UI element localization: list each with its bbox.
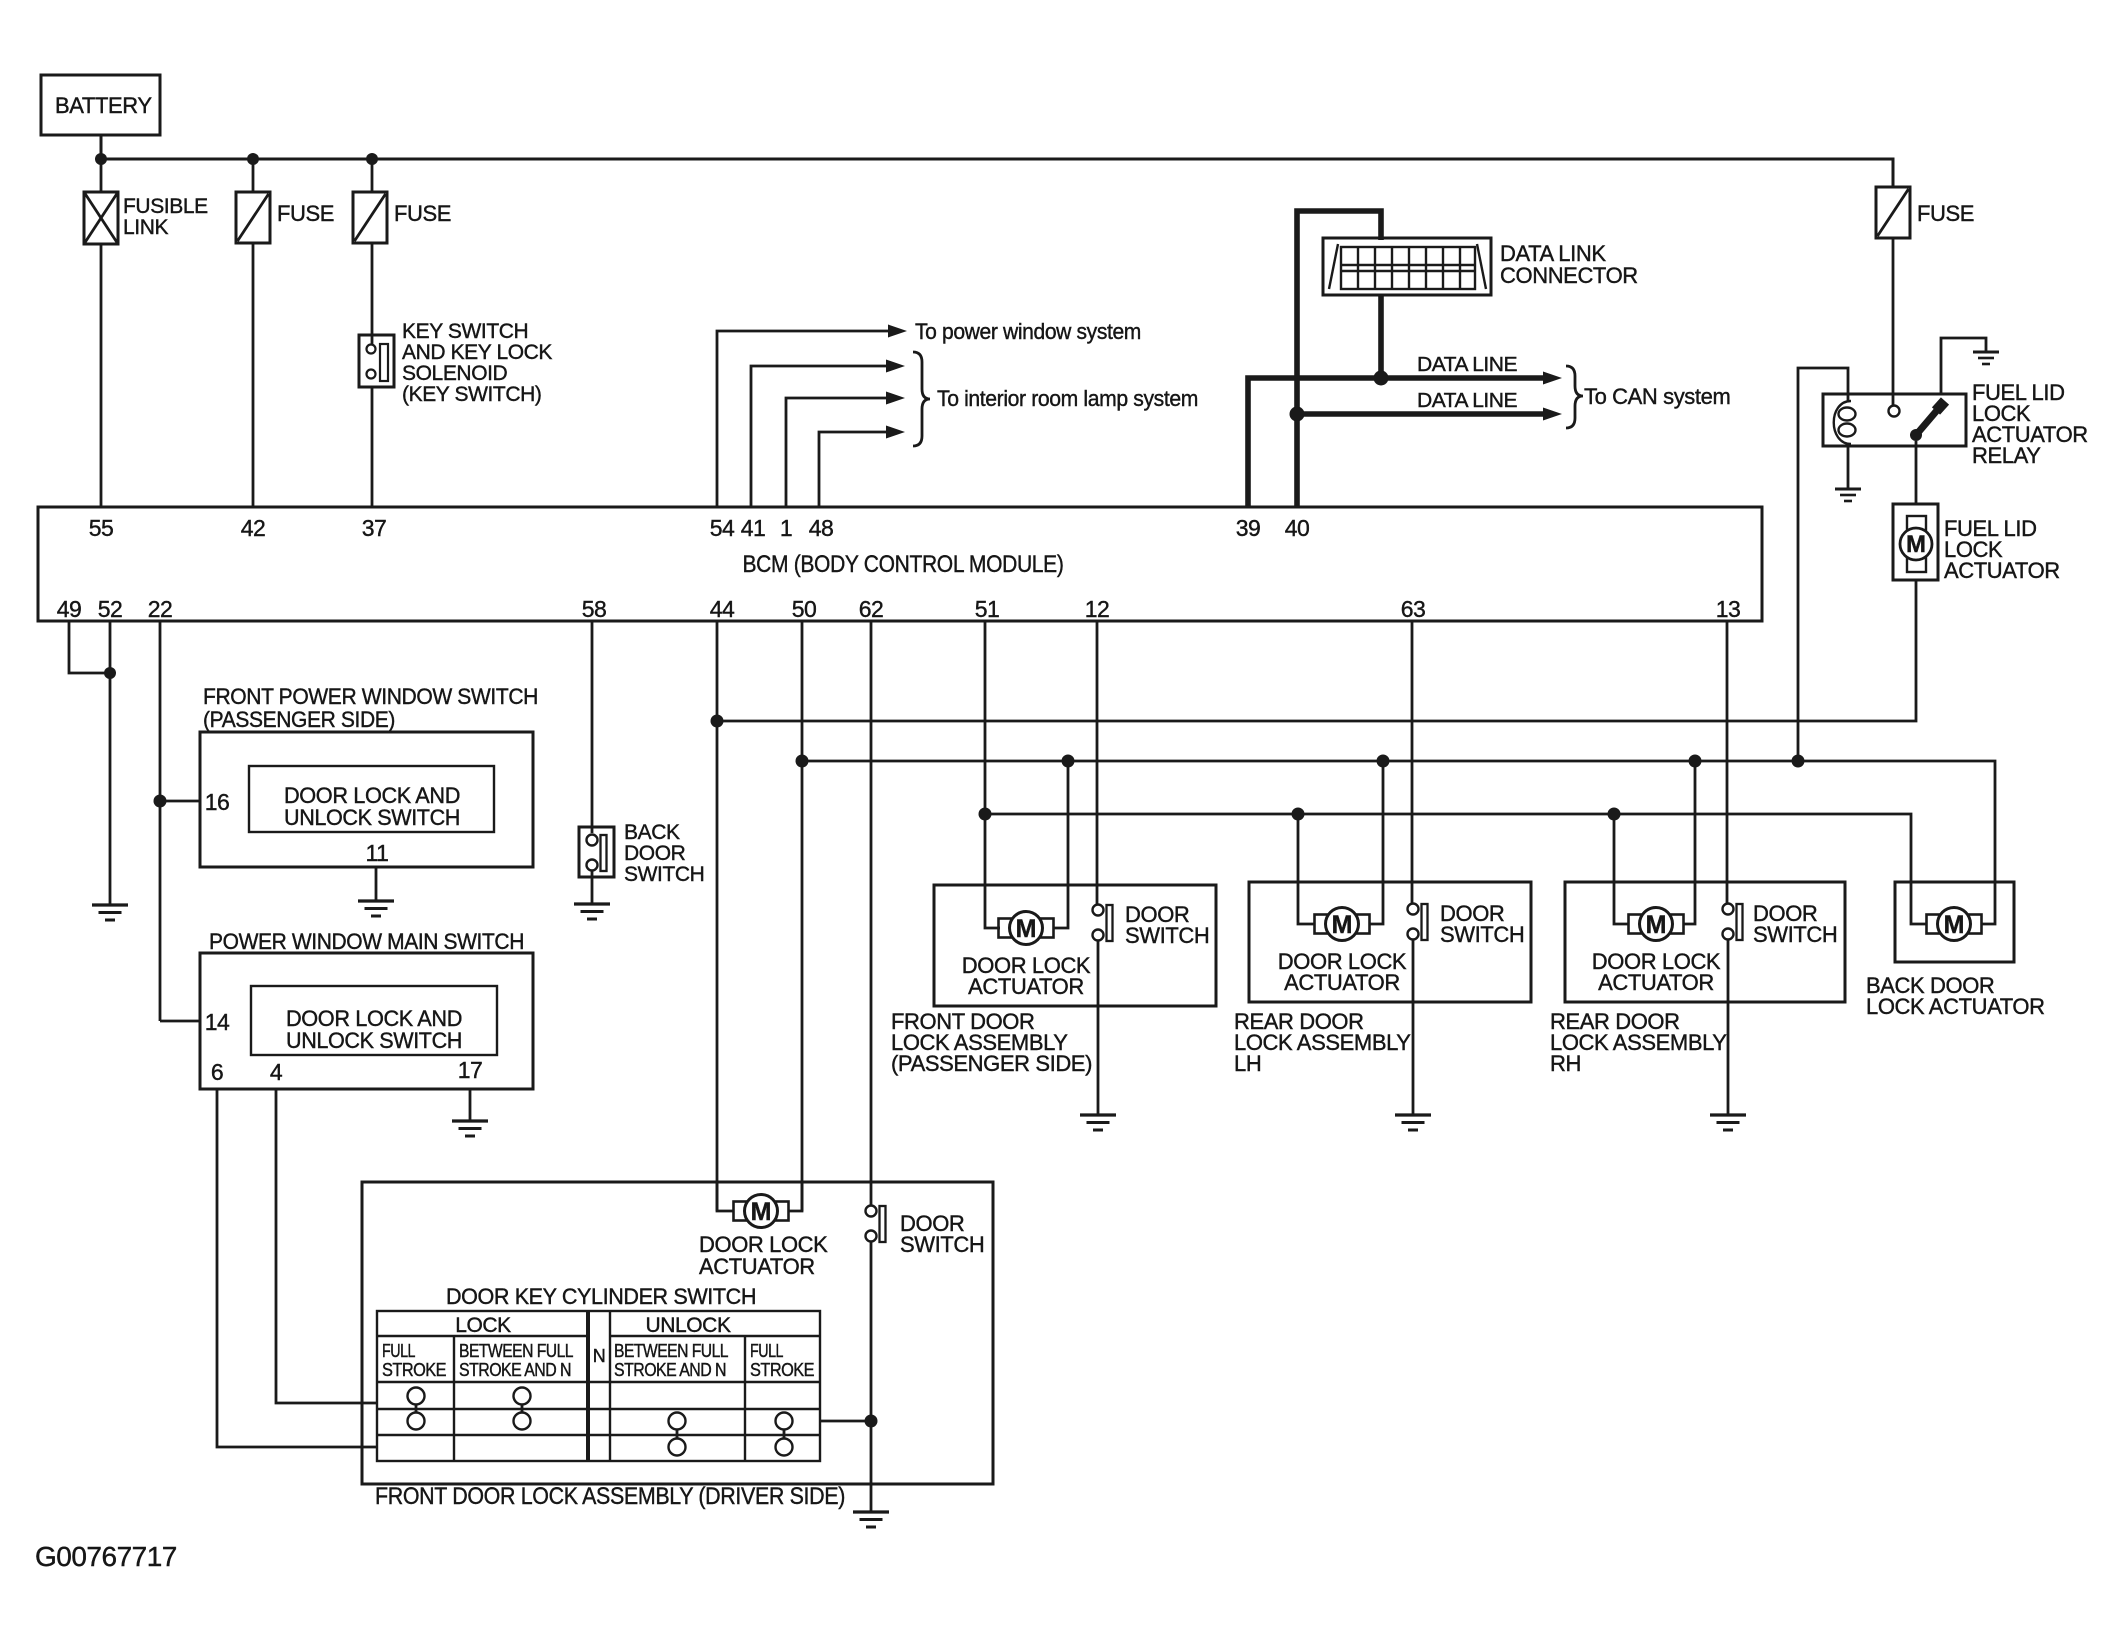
data link connector DLC: [1323, 238, 1638, 295]
svg-text:FUSIBLE: FUSIBLE: [123, 195, 208, 218]
label back door lock actuator: [1866, 973, 2045, 1019]
wire BCM pin 22 riser: [159, 621, 162, 1021]
svg-text:54: 54: [710, 515, 735, 541]
svg-text:55: 55: [89, 515, 114, 541]
wire RH motor left to bus C: [1614, 814, 1629, 924]
wire bus to fuse F1: [252, 159, 255, 192]
wire relay coil feed from unlock bus: [1798, 368, 1848, 761]
wire pin 22 to main switch pin 14: [160, 1020, 200, 1023]
motor M3 door lock actuator RH: [1592, 908, 1721, 996]
label rear door lock assembly LH: [1234, 1009, 1411, 1076]
svg-text:FULL: FULL: [382, 1341, 415, 1361]
fuse F3: [1876, 187, 1974, 238]
svg-text:FUSE: FUSE: [1917, 201, 1974, 226]
ground G2: [358, 901, 394, 916]
svg-text:M: M: [1906, 531, 1926, 558]
node LH motor bus C junction: [1292, 808, 1305, 821]
wire back door switch to ground: [591, 870, 594, 904]
wire BCM pin 51 riser to passenger motor: [985, 621, 1000, 928]
svg-text:(KEY SWITCH): (KEY SWITCH): [402, 383, 541, 406]
label front door lock assembly passenger: [891, 1009, 1092, 1076]
svg-text:SWITCH: SWITCH: [1125, 923, 1209, 948]
contact pair lock between: [514, 1388, 531, 1430]
wire RH door switch to ground: [1727, 939, 1730, 1115]
wire RH motor right to unlock bus: [1683, 761, 1695, 924]
wire pin 6 to key cylinder unlock row: [217, 1089, 377, 1447]
wire key switch to BCM pin 37: [371, 387, 374, 507]
svg-text:FRONT DOOR LOCK ASSEMBLY (DRIV: FRONT DOOR LOCK ASSEMBLY (DRIVER SIDE): [375, 1483, 845, 1510]
node RH motor unlock junction: [1689, 755, 1702, 768]
node pin 44 bus junction: [711, 715, 724, 728]
node DLC junction on data line 1: [1374, 371, 1389, 386]
svg-text:DATA LINE: DATA LINE: [1417, 389, 1517, 412]
svg-text:ACTUATOR: ACTUATOR: [1944, 558, 2060, 583]
contact pair lock full stroke: [408, 1388, 425, 1430]
wire BCM pin 52 to ground: [109, 621, 112, 905]
svg-text:49: 49: [57, 596, 82, 622]
wire LH motor left to bus C: [1298, 814, 1315, 924]
svg-text:4: 4: [270, 1059, 283, 1085]
svg-text:To interior room lamp system: To interior room lamp system: [937, 386, 1198, 411]
node pin 22 branch to pin 16: [154, 795, 167, 808]
svg-text:FUSE: FUSE: [394, 201, 451, 226]
svg-text:52: 52: [98, 596, 123, 622]
ground G1: [92, 905, 128, 920]
svg-text:ACTUATOR: ACTUATOR: [968, 974, 1084, 999]
svg-text:To power window system: To power window system: [915, 319, 1141, 344]
front power window switch (passenger side) SW2: [200, 684, 538, 867]
node LH motor unlock junction: [1377, 755, 1390, 768]
node RH motor bus C junction: [1608, 808, 1621, 821]
ground G6: [1395, 1115, 1431, 1130]
motor M6 door lock actuator driver: [699, 1182, 828, 1279]
rear door lock assembly RH box: [1565, 882, 1845, 1002]
svg-text:BETWEEN FULL: BETWEEN FULL: [614, 1341, 729, 1361]
wire key cylinder output to door switch ground line: [820, 1420, 871, 1423]
motor M2 door lock actuator LH: [1278, 908, 1407, 996]
svg-text:G00767717: G00767717: [35, 1541, 177, 1572]
svg-text:FULL: FULL: [750, 1341, 783, 1361]
wire bus to fusible link: [100, 159, 103, 192]
fuse F2: [353, 192, 451, 243]
wire LH door switch to ground: [1412, 939, 1415, 1115]
wire BCM pin 63 riser to LH door switch: [1411, 621, 1414, 904]
svg-text:17: 17: [458, 1057, 483, 1083]
svg-text:SWITCH: SWITCH: [624, 863, 704, 886]
svg-text:13: 13: [1716, 596, 1741, 622]
wire relay coil to ground: [1847, 443, 1850, 489]
wire BCM pin 41 to interior lamp arrow 1: [751, 366, 886, 507]
svg-text:50: 50: [792, 596, 817, 622]
svg-text:SOLENOID: SOLENOID: [402, 362, 508, 385]
key switch and key lock solenoid SW1: [359, 320, 552, 406]
motor M1 door lock actuator passenger: [962, 912, 1091, 1000]
wire data line 2 arrow: [1297, 411, 1545, 417]
svg-text:41: 41: [741, 515, 766, 541]
wire pin 11 to ground: [375, 867, 378, 901]
svg-text:LOCK ACTUATOR: LOCK ACTUATOR: [1866, 994, 2045, 1019]
svg-text:UNLOCK SWITCH: UNLOCK SWITCH: [286, 1028, 462, 1053]
wire passenger door switch to ground: [1097, 940, 1100, 1115]
door switch LH: [1408, 901, 1525, 947]
node pin49/52 junction: [104, 667, 116, 679]
wire BCM pin 13 riser to RH door switch: [1726, 621, 1729, 904]
front door lock assembly driver side box: [362, 1182, 993, 1484]
wire fuse F3 to relay contact: [1892, 238, 1895, 405]
svg-text:POWER WINDOW MAIN SWITCH: POWER WINDOW MAIN SWITCH: [209, 929, 524, 954]
ground G3: [452, 1121, 488, 1136]
svg-text:SWITCH: SWITCH: [900, 1232, 984, 1257]
ground G9: [1973, 352, 1999, 364]
wire relay NC contact to ground: [1941, 338, 1986, 394]
fuse F1: [236, 192, 334, 243]
svg-text:44: 44: [710, 596, 735, 622]
svg-text:DATA LINE: DATA LINE: [1417, 353, 1517, 376]
node junction on pin 40 riser: [1290, 407, 1305, 422]
svg-text:STROKE AND N: STROKE AND N: [459, 1360, 571, 1380]
ground G7: [1710, 1115, 1746, 1130]
svg-text:RELAY: RELAY: [1972, 443, 2041, 468]
ground G10: [853, 1512, 889, 1527]
node battery bus junction 3: [366, 153, 378, 165]
wire BCM pin 50 riser to driver actuator: [801, 621, 804, 1211]
wire bus to fuse F2: [371, 159, 374, 192]
wire switch bus C: [985, 814, 1927, 924]
wire BCM pin 12 riser to passenger door switch: [1096, 621, 1099, 905]
wire branch to front power window switch pin 16: [160, 800, 200, 803]
svg-text:CONNECTOR: CONNECTOR: [1500, 263, 1638, 288]
node pin 50 bus junction: [796, 755, 809, 768]
wire battery to bus: [100, 135, 103, 159]
wire BCM pin 48 to interior lamp arrow 3: [819, 432, 886, 507]
contact pair unlock between: [669, 1413, 686, 1456]
label rear door lock assembly RH: [1550, 1009, 1727, 1076]
door switch RH: [1723, 901, 1838, 947]
node pin 51 bus junction: [979, 808, 992, 821]
wire pin 4 to key cylinder lock row: [276, 1089, 377, 1403]
node key cylinder to switch-ground junction: [865, 1415, 878, 1428]
svg-text:(PASSENGER SIDE): (PASSENGER SIDE): [203, 707, 395, 732]
svg-text:RH: RH: [1550, 1051, 1581, 1076]
svg-text:FUSE: FUSE: [277, 201, 334, 226]
fuel lid lock actuator M5: [1893, 504, 2060, 583]
door switch driver: [866, 1206, 985, 1258]
wire BCM pin 1 to interior lamp arrow 2: [786, 398, 886, 507]
BCM body control module U1: [38, 507, 1762, 621]
svg-text:62: 62: [859, 596, 884, 622]
svg-text:63: 63: [1401, 596, 1426, 622]
svg-text:ACTUATOR: ACTUATOR: [1284, 970, 1400, 995]
wire BCM pin 39 riser to data line 1: [1248, 378, 1381, 507]
back door lock actuator box: [1895, 882, 2014, 962]
svg-text:22: 22: [148, 596, 173, 622]
node battery bus junction 2: [247, 153, 259, 165]
svg-text:51: 51: [975, 596, 1000, 622]
svg-text:AND KEY LOCK: AND KEY LOCK: [402, 341, 552, 364]
wire lock bus A: [717, 580, 1916, 721]
svg-text:SWITCH: SWITCH: [1440, 922, 1524, 947]
svg-text:DOOR: DOOR: [624, 842, 686, 865]
wire passenger motor right to unlock bus: [1053, 761, 1068, 928]
wire relay common to fuel lid actuator: [1915, 441, 1918, 504]
svg-text:UNLOCK SWITCH: UNLOCK SWITCH: [284, 805, 460, 830]
svg-text:STROKE AND N: STROKE AND N: [614, 1360, 726, 1380]
door key cylinder switch table: [377, 1284, 820, 1461]
svg-text:(PASSENGER SIDE): (PASSENGER SIDE): [891, 1051, 1092, 1076]
svg-text:37: 37: [362, 515, 387, 541]
svg-text:BACK: BACK: [624, 821, 680, 844]
rear door lock assembly LH box: [1249, 882, 1531, 1002]
svg-text:DOOR KEY CYLINDER SWITCH: DOOR KEY CYLINDER SWITCH: [446, 1284, 756, 1309]
svg-text:11: 11: [366, 840, 389, 866]
svg-text:6: 6: [211, 1059, 223, 1085]
wire BCM pin 62 riser to driver door switch: [870, 621, 873, 1206]
wire data line 1 arrow: [1381, 375, 1545, 381]
svg-text:40: 40: [1285, 515, 1310, 541]
svg-text:FRONT POWER WINDOW SWITCH: FRONT POWER WINDOW SWITCH: [203, 684, 538, 709]
svg-text:ACTUATOR: ACTUATOR: [1598, 970, 1714, 995]
svg-text:To CAN system: To CAN system: [1584, 384, 1730, 409]
fusible link FL: [84, 192, 208, 244]
svg-text:SWITCH: SWITCH: [1753, 922, 1837, 947]
svg-text:BCM (BODY CONTROL MODULE): BCM (BODY CONTROL MODULE): [743, 551, 1064, 578]
wire fuse F1 to BCM pin 42: [252, 243, 255, 507]
wire BCM pin 44 riser to driver actuator: [716, 621, 719, 1211]
svg-text:1: 1: [780, 515, 792, 541]
front door lock assembly passenger side box: [934, 885, 1216, 1006]
svg-text:LOCK: LOCK: [455, 1314, 511, 1337]
svg-text:N: N: [593, 1346, 605, 1366]
svg-text:BATTERY: BATTERY: [55, 93, 152, 118]
svg-text:STROKE: STROKE: [382, 1360, 447, 1380]
motor M4 back door lock actuator: [1927, 908, 1982, 941]
svg-text:42: 42: [241, 515, 266, 541]
svg-text:BETWEEN FULL: BETWEEN FULL: [459, 1341, 574, 1361]
svg-text:39: 39: [1236, 515, 1261, 541]
node battery bus junction 1: [95, 153, 107, 165]
wire pin 17 to ground: [469, 1089, 472, 1121]
svg-text:58: 58: [582, 596, 607, 622]
svg-text:12: 12: [1085, 596, 1110, 622]
brace for interior room lamp group: [913, 352, 930, 446]
wire unlock bus B: [802, 761, 1995, 924]
battery B1: [41, 75, 160, 135]
wire LH motor right to unlock bus: [1369, 761, 1383, 924]
ground G4: [574, 904, 610, 919]
wire BCM pin 54 to power window system arrow: [717, 331, 888, 507]
wire main battery bus: [101, 159, 1893, 187]
svg-text:48: 48: [809, 515, 834, 541]
svg-text:16: 16: [205, 789, 230, 815]
wire fuse F2 to key switch: [371, 243, 374, 344]
svg-text:14: 14: [205, 1009, 230, 1035]
wire fusible link to BCM pin 55: [100, 244, 103, 507]
svg-text:UNLOCK: UNLOCK: [645, 1314, 731, 1337]
wire BCM pin 40 riser (thick) to DLC top: [1297, 211, 1381, 507]
brace for CAN system: [1566, 366, 1583, 428]
svg-text:ACTUATOR: ACTUATOR: [699, 1254, 815, 1279]
svg-text:LH: LH: [1234, 1051, 1261, 1076]
ground G5: [1080, 1115, 1116, 1130]
door switch passenger: [1093, 902, 1210, 948]
wire BCM pin 58 to back door switch: [591, 621, 594, 833]
power window main switch SW3: [200, 929, 533, 1089]
fuel lid lock actuator relay K1: [1823, 380, 2088, 468]
node passenger motor unlock junction: [1062, 755, 1075, 768]
contact pair unlock full stroke: [776, 1413, 793, 1456]
node relay coil bus junction: [1792, 755, 1805, 768]
ground G8: [1835, 489, 1861, 501]
svg-text:KEY SWITCH: KEY SWITCH: [402, 320, 528, 343]
svg-text:LINK: LINK: [123, 216, 168, 239]
back door switch SW4: [579, 821, 704, 886]
wire BCM pin 49 stub: [69, 621, 110, 673]
wire DLC bottom stub (thick): [1378, 295, 1384, 378]
wire driver door switch to ground: [870, 1241, 873, 1512]
svg-text:STROKE: STROKE: [750, 1360, 815, 1380]
